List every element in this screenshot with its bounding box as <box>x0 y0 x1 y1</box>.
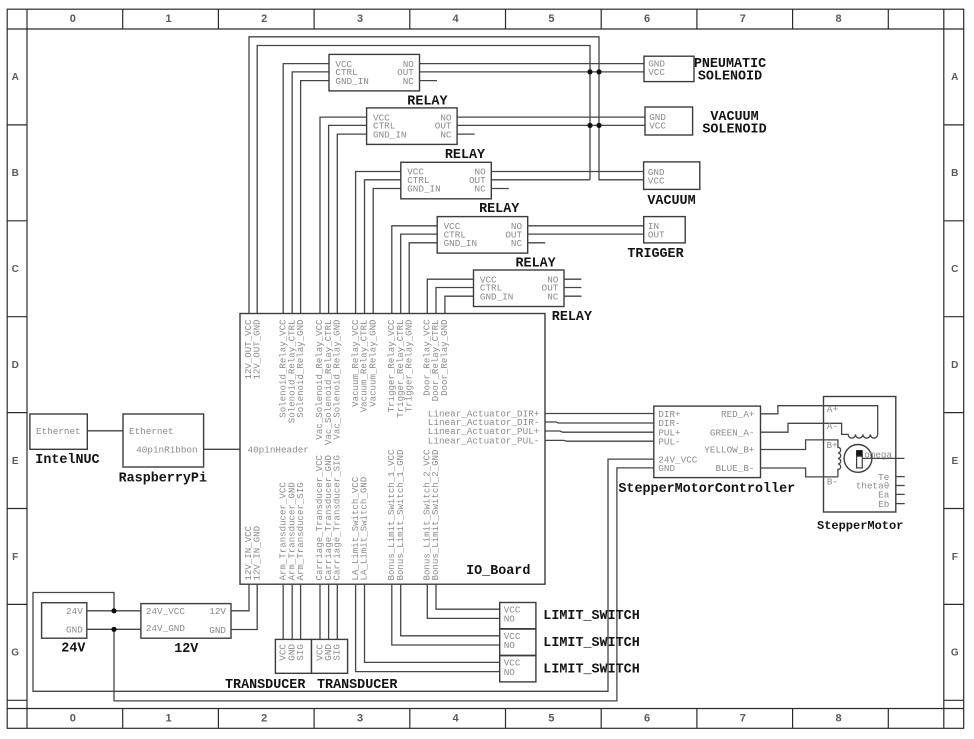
svg-text:VACUUM: VACUUM <box>647 194 695 209</box>
wires carriage transducer <box>320 584 337 639</box>
svg-text:PUL-: PUL- <box>658 436 680 447</box>
svg-text:D: D <box>951 360 958 371</box>
StepperMotor pin labels <box>827 404 890 510</box>
svg-text:Arm_Transducer_SIG: Arm_Transducer_SIG <box>295 482 306 580</box>
svg-text:A: A <box>12 72 19 83</box>
svg-text:2: 2 <box>261 713 267 725</box>
svg-text:StepperMotor: StepperMotor <box>817 519 903 533</box>
svg-text:VCC: VCC <box>648 67 665 78</box>
junction dots 24V <box>111 608 116 632</box>
svg-text:LIMIT_SWITCH: LIMIT_SWITCH <box>543 662 639 677</box>
relay R5 NC stub <box>564 295 582 297</box>
transducer 1 box <box>275 639 311 673</box>
svg-text:GREEN_A-: GREEN_A- <box>710 427 755 438</box>
svg-text:TRIGGER: TRIGGER <box>627 247 684 262</box>
svg-text:G: G <box>11 648 19 659</box>
frame row letters right <box>951 72 959 659</box>
svg-text:Ethernet: Ethernet <box>129 426 174 437</box>
svg-text:24V: 24V <box>66 606 83 617</box>
relay R5 <box>474 270 565 307</box>
svg-text:E: E <box>12 456 19 467</box>
svg-text:GND_IN: GND_IN <box>480 291 513 302</box>
svg-text:8: 8 <box>835 13 841 25</box>
svg-text:12V: 12V <box>209 606 226 617</box>
svg-text:Solenoid_Relay_GND: Solenoid_Relay_GND <box>295 320 306 418</box>
svg-text:A: A <box>951 72 958 83</box>
junction dots on solenoid VCC wires <box>587 69 601 128</box>
wire relay R5 NO stub <box>564 278 581 280</box>
relay R3 left pin wires <box>356 172 401 314</box>
IO_Board top pin labels <box>243 319 450 445</box>
svg-text:4: 4 <box>453 13 460 25</box>
wire Ea stub <box>896 493 905 495</box>
IO_Board bottom pin labels <box>243 449 441 581</box>
frame column numbers top <box>70 13 842 25</box>
svg-text:LA_Limit_Switch_GND: LA_Limit_Switch_GND <box>359 477 370 581</box>
12V box <box>141 604 231 639</box>
svg-text:NC: NC <box>511 238 523 249</box>
wire BLUE_B- <box>761 468 838 477</box>
StepperMotorController box <box>654 406 761 478</box>
svg-text:8: 8 <box>835 713 841 725</box>
svg-text:F: F <box>12 552 18 563</box>
wire 40pinRibbon <box>204 448 240 450</box>
wire relay R1 OUT to pneumatic solenoid VCC <box>420 71 645 73</box>
wire Eb stub <box>896 503 905 505</box>
svg-text:Bonus_Limit_Switch_2_GND: Bonus_Limit_Switch_2_GND <box>430 450 441 581</box>
wire theta stub <box>896 485 905 487</box>
svg-text:NC: NC <box>403 76 415 87</box>
wire relay R3 NO to vacuum GND <box>491 171 643 173</box>
wire relay R4 NO to trigger IN <box>528 225 644 227</box>
wire Linear_Actuator_DIR+ <box>545 413 654 415</box>
wire Linear_Actuator_PUL- <box>545 439 654 442</box>
rotor white rect <box>857 456 863 468</box>
svg-text:6: 6 <box>644 713 650 725</box>
svg-text:GND: GND <box>209 625 226 636</box>
svg-text:TRANSDUCER: TRANSDUCER <box>317 678 398 693</box>
svg-text:D: D <box>12 360 19 371</box>
wire 24V GND route to controller <box>114 468 654 701</box>
relay R4 left pin wires <box>392 226 437 314</box>
svg-text:VCC: VCC <box>649 121 666 132</box>
svg-text:GND: GND <box>66 625 83 636</box>
wire GREEN_A- with coil A <box>761 423 878 438</box>
relay R2 NC stub <box>457 133 475 135</box>
label PNEUMATIC SOLENOID <box>694 57 766 85</box>
svg-text:E: E <box>951 456 958 467</box>
StepperMotor box <box>824 397 896 513</box>
limit switch 3 box <box>500 656 536 682</box>
svg-text:B: B <box>12 168 19 179</box>
svg-text:0: 0 <box>70 713 76 725</box>
svg-text:LIMIT_SWITCH: LIMIT_SWITCH <box>543 636 639 651</box>
svg-text:40pinRibbon: 40pinRibbon <box>136 445 197 456</box>
svg-text:C: C <box>951 264 958 275</box>
svg-text:B: B <box>951 168 958 179</box>
svg-text:SOLENOID: SOLENOID <box>698 70 762 85</box>
svg-text:VCC: VCC <box>648 175 665 186</box>
svg-text:B-: B- <box>827 476 838 487</box>
svg-text:1: 1 <box>166 713 172 725</box>
wire relay R2 OUT to vacuum solenoid VCC <box>457 124 645 126</box>
IO_Board right pin labels Linear_Actuator <box>428 408 540 446</box>
svg-text:24V_VCC: 24V_VCC <box>146 606 185 617</box>
svg-text:RaspberryPi: RaspberryPi <box>119 471 207 486</box>
svg-text:NC: NC <box>475 184 487 195</box>
limit switch 1 box <box>500 603 536 629</box>
wire RED_A+ <box>761 406 878 435</box>
svg-text:RED_A+: RED_A+ <box>721 409 755 420</box>
wires arm transducer <box>283 584 300 639</box>
svg-text:NO: NO <box>504 667 516 678</box>
svg-text:12V_IN_GND: 12V_IN_GND <box>251 526 262 581</box>
wire 24V to 12V GND <box>87 628 141 630</box>
svg-text:1: 1 <box>166 13 172 25</box>
RaspberryPi box <box>123 414 204 467</box>
relay R4 <box>437 217 528 254</box>
svg-text:3: 3 <box>357 13 363 25</box>
svg-text:SOLENOID: SOLENOID <box>702 123 766 138</box>
wire omega stub <box>863 457 905 459</box>
wires limit switch 2 <box>392 584 500 645</box>
label VACUUM SOLENOID <box>702 110 766 138</box>
svg-text:StepperMotorController: StepperMotorController <box>618 482 795 497</box>
wire ethernet <box>87 430 123 432</box>
svg-text:GND_IN: GND_IN <box>373 129 406 140</box>
svg-text:A-: A- <box>827 421 838 432</box>
svg-text:RELAY: RELAY <box>407 94 448 109</box>
svg-text:NO: NO <box>504 640 516 651</box>
svg-text:IntelNUC: IntelNUC <box>35 453 99 468</box>
relay R3 <box>401 162 492 199</box>
svg-text:Eb: Eb <box>878 499 889 510</box>
svg-text:Vacuum_Relay_GND: Vacuum_Relay_GND <box>367 320 378 407</box>
svg-text:4: 4 <box>453 713 460 725</box>
wire 24V to 12V VCC <box>87 610 141 612</box>
svg-text:6: 6 <box>644 13 650 25</box>
relay R2 <box>367 108 458 144</box>
wire 12V to IO 12V_IN_VCC <box>231 584 249 611</box>
limit switch 2 box <box>500 629 536 655</box>
StepperMotor rotor circle <box>844 445 872 473</box>
svg-text:12V: 12V <box>174 642 199 657</box>
connector vacuum solenoid <box>645 107 693 135</box>
svg-text:0: 0 <box>70 13 76 25</box>
svg-text:7: 7 <box>740 713 746 725</box>
svg-text:5: 5 <box>548 13 554 25</box>
svg-text:7: 7 <box>740 13 746 25</box>
svg-text:Vac_Solenoid_Relay_GND: Vac_Solenoid_Relay_GND <box>332 320 343 440</box>
svg-text:NO: NO <box>504 614 516 625</box>
svg-text:24V_GND: 24V_GND <box>146 623 185 634</box>
svg-text:GND_IN: GND_IN <box>335 76 368 87</box>
svg-text:Linear_Actuator_PUL-: Linear_Actuator_PUL- <box>428 436 540 447</box>
relay R1 <box>329 54 420 91</box>
relay R2 left pin wires <box>320 117 367 313</box>
wire 12V_OUT_VCC bus <box>249 37 644 314</box>
wire Linear_Actuator_PUL+ <box>545 431 654 432</box>
svg-text:GND: GND <box>658 463 675 474</box>
svg-text:40pinHeader: 40pinHeader <box>248 445 309 456</box>
wire YELLOW_B+ with coil B <box>761 440 841 477</box>
relay R1 left pin wires <box>283 64 329 314</box>
svg-text:RELAY: RELAY <box>445 148 486 163</box>
wire relay R1 NO to pneumatic solenoid GND <box>420 63 645 65</box>
rotor black rect <box>856 450 863 456</box>
svg-text:12V_OUT_GND: 12V_OUT_GND <box>251 320 262 380</box>
IntelNUC box <box>30 414 87 449</box>
svg-text:Bonus_Limit_Switch_1_GND: Bonus_Limit_Switch_1_GND <box>395 450 406 581</box>
svg-text:RELAY: RELAY <box>479 202 520 217</box>
wire Te stub <box>896 476 905 478</box>
svg-text:NC: NC <box>440 129 452 140</box>
svg-text:G: G <box>951 648 959 659</box>
svg-text:Ethernet: Ethernet <box>36 426 81 437</box>
connector vacuum <box>644 162 700 190</box>
IO_Board box <box>240 314 545 585</box>
svg-text:RELAY: RELAY <box>516 257 557 272</box>
relay R1 NC stub <box>420 80 438 82</box>
svg-text:OUT: OUT <box>648 230 665 241</box>
svg-text:C: C <box>12 264 19 275</box>
svg-text:IO_Board: IO_Board <box>466 564 530 579</box>
relay R3 NC stub <box>491 188 509 190</box>
wires limit switch 1 <box>427 584 499 618</box>
wires limit switch 3 <box>356 584 500 671</box>
svg-text:SIG: SIG <box>332 644 343 661</box>
frame row letters left <box>11 72 19 659</box>
svg-text:NC: NC <box>547 291 559 302</box>
connector trigger <box>644 217 686 243</box>
svg-text:Carriage_Transducer_SIG: Carriage_Transducer_SIG <box>332 455 343 581</box>
svg-text:SIG: SIG <box>295 644 306 661</box>
svg-text:RELAY: RELAY <box>552 310 593 325</box>
svg-text:3: 3 <box>357 713 363 725</box>
svg-text:Trigger_Relay_GND: Trigger_Relay_GND <box>403 320 414 413</box>
svg-text:24V: 24V <box>61 642 86 657</box>
wire 24V VCC route to controller <box>33 459 654 691</box>
wire relay R3 OUT to GND bus <box>491 179 590 181</box>
wire Linear_Actuator_DIR- <box>545 422 654 423</box>
svg-text:F: F <box>952 552 958 563</box>
svg-text:BLUE_B-: BLUE_B- <box>715 463 754 474</box>
relay R4 NC stub <box>528 242 546 244</box>
transducer 2 box <box>312 639 348 673</box>
relay R5 left pin wires <box>427 279 473 313</box>
wire 12V_OUT_GND bus <box>257 46 590 314</box>
svg-text:Door_Relay_GND: Door_Relay_GND <box>439 320 450 396</box>
wire 12V to IO 12V_IN_GND <box>231 584 257 629</box>
svg-text:GND_IN: GND_IN <box>407 184 440 195</box>
svg-text:A+: A+ <box>827 404 839 415</box>
connector pneumatic solenoid <box>644 56 694 81</box>
frame column numbers bottom <box>70 713 842 725</box>
24V box <box>42 603 87 639</box>
svg-text:5: 5 <box>548 713 554 725</box>
wire relay R4 OUT to trigger OUT <box>528 233 644 235</box>
svg-text:TRANSDUCER: TRANSDUCER <box>225 678 306 693</box>
svg-text:2: 2 <box>261 13 267 25</box>
svg-text:B+: B+ <box>827 440 839 451</box>
wire relay R2 NO to vacuum solenoid GND <box>457 116 645 118</box>
svg-text:YELLOW_B+: YELLOW_B+ <box>704 445 755 456</box>
wire relay R5 OUT stub <box>564 287 581 289</box>
svg-text:GND_IN: GND_IN <box>444 238 477 249</box>
svg-text:LIMIT_SWITCH: LIMIT_SWITCH <box>543 609 639 624</box>
